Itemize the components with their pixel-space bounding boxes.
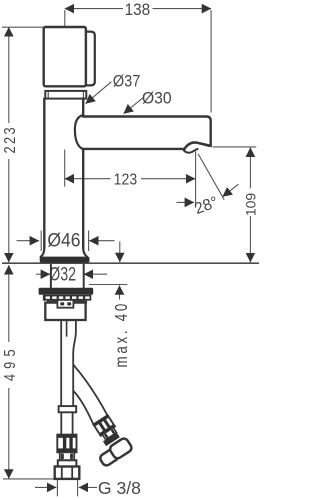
handle: [44, 27, 86, 86]
hose collar: [59, 406, 77, 412]
aerator outlet (angled): [184, 142, 211, 152]
collar band: [45, 91, 86, 99]
dimension 109 (right, spout height): [213, 147, 259, 262]
svg-text:G 3/8: G 3/8: [98, 478, 141, 498]
connector block: [57, 300, 73, 308]
dimension 138 (top width): [65, 2, 211, 113]
diagonal hose fitting: [82, 414, 133, 468]
handle tab: [86, 32, 95, 86]
mounting nut band: [47, 301, 87, 304]
svg-text:Ø37: Ø37: [113, 73, 140, 91]
svg-text:Ø32: Ø32: [49, 263, 76, 285]
svg-text:Ø46: Ø46: [47, 229, 80, 251]
label 28° (stream angle): [177, 152, 239, 219]
svg-text:495: 495: [2, 344, 20, 381]
supply hoses (straight + diagonal): [61, 321, 107, 424]
spout: [83, 117, 211, 149]
dimension 223 (left height): [2, 27, 43, 262]
dimension max. 40 (counter thickness): [89, 241, 131, 367]
dimension 495 (left total height): [2, 265, 57, 479]
base ring: [40, 257, 90, 263]
dimension Ø46 (base diameter): [17, 229, 115, 251]
svg-text:109: 109: [243, 193, 259, 217]
base cone: [41, 247, 87, 257]
svg-text:max. 40: max. 40: [112, 301, 131, 368]
countertop line: [2, 262, 259, 264]
end nut G3/8: [55, 467, 80, 479]
shank Ø32: [51, 265, 84, 288]
svg-text:28°: 28°: [192, 194, 220, 218]
svg-text:123: 123: [114, 171, 137, 189]
dimension G 3/8 (thread): [35, 478, 141, 498]
hose stem: [60, 452, 74, 460]
spout junction bulge: [75, 115, 83, 149]
dimension 123 (spout reach): [65, 150, 196, 189]
serrated ring: [43, 295, 91, 301]
washer: [39, 288, 94, 295]
svg-text:223: 223: [2, 125, 20, 154]
body / neck: [44, 99, 83, 248]
dimension Ø32 (shank diameter): [36, 263, 107, 285]
hose lower section: [61, 412, 72, 434]
label Ø37 (handle diameter): [86, 73, 141, 104]
label Ø30 (spout diameter): [124, 89, 172, 114]
end collar: [58, 460, 77, 466]
manifold box: [45, 303, 85, 320]
svg-text:138: 138: [125, 2, 151, 20]
crimp sleeve: [57, 435, 76, 453]
svg-text:Ø30: Ø30: [142, 89, 172, 108]
